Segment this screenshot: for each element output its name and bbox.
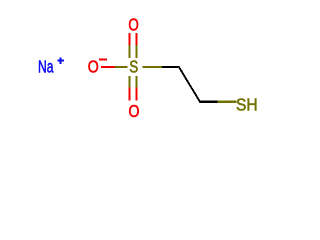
svg-text:O: O <box>129 101 140 121</box>
bond CH2–SH : black half <box>200 101 217 103</box>
bond CH2–CH2 diagonal <box>177 66 202 103</box>
svg-text:O: O <box>88 57 99 77</box>
double bond S=O top : right line <box>136 33 138 58</box>
bond CH2–SH : olive half <box>217 101 236 103</box>
double bond S=O bottom : left line <box>128 76 130 101</box>
svg-text:O: O <box>128 15 138 35</box>
svg-text:SH: SH <box>236 94 258 114</box>
bond S–CH2 : olive half <box>142 66 162 68</box>
minus charge on O <box>99 59 107 61</box>
svg-text:S: S <box>129 57 138 77</box>
bond O(-)–S : red half <box>101 66 115 68</box>
bond O(-)–S : olive half <box>115 66 128 68</box>
plus charge on Na <box>57 58 63 64</box>
bond S–CH2 : black half <box>162 66 178 68</box>
svg-text:Na: Na <box>38 57 54 77</box>
double bond S=O top : left line <box>128 33 130 58</box>
double bond S=O bottom : right line <box>136 76 138 101</box>
